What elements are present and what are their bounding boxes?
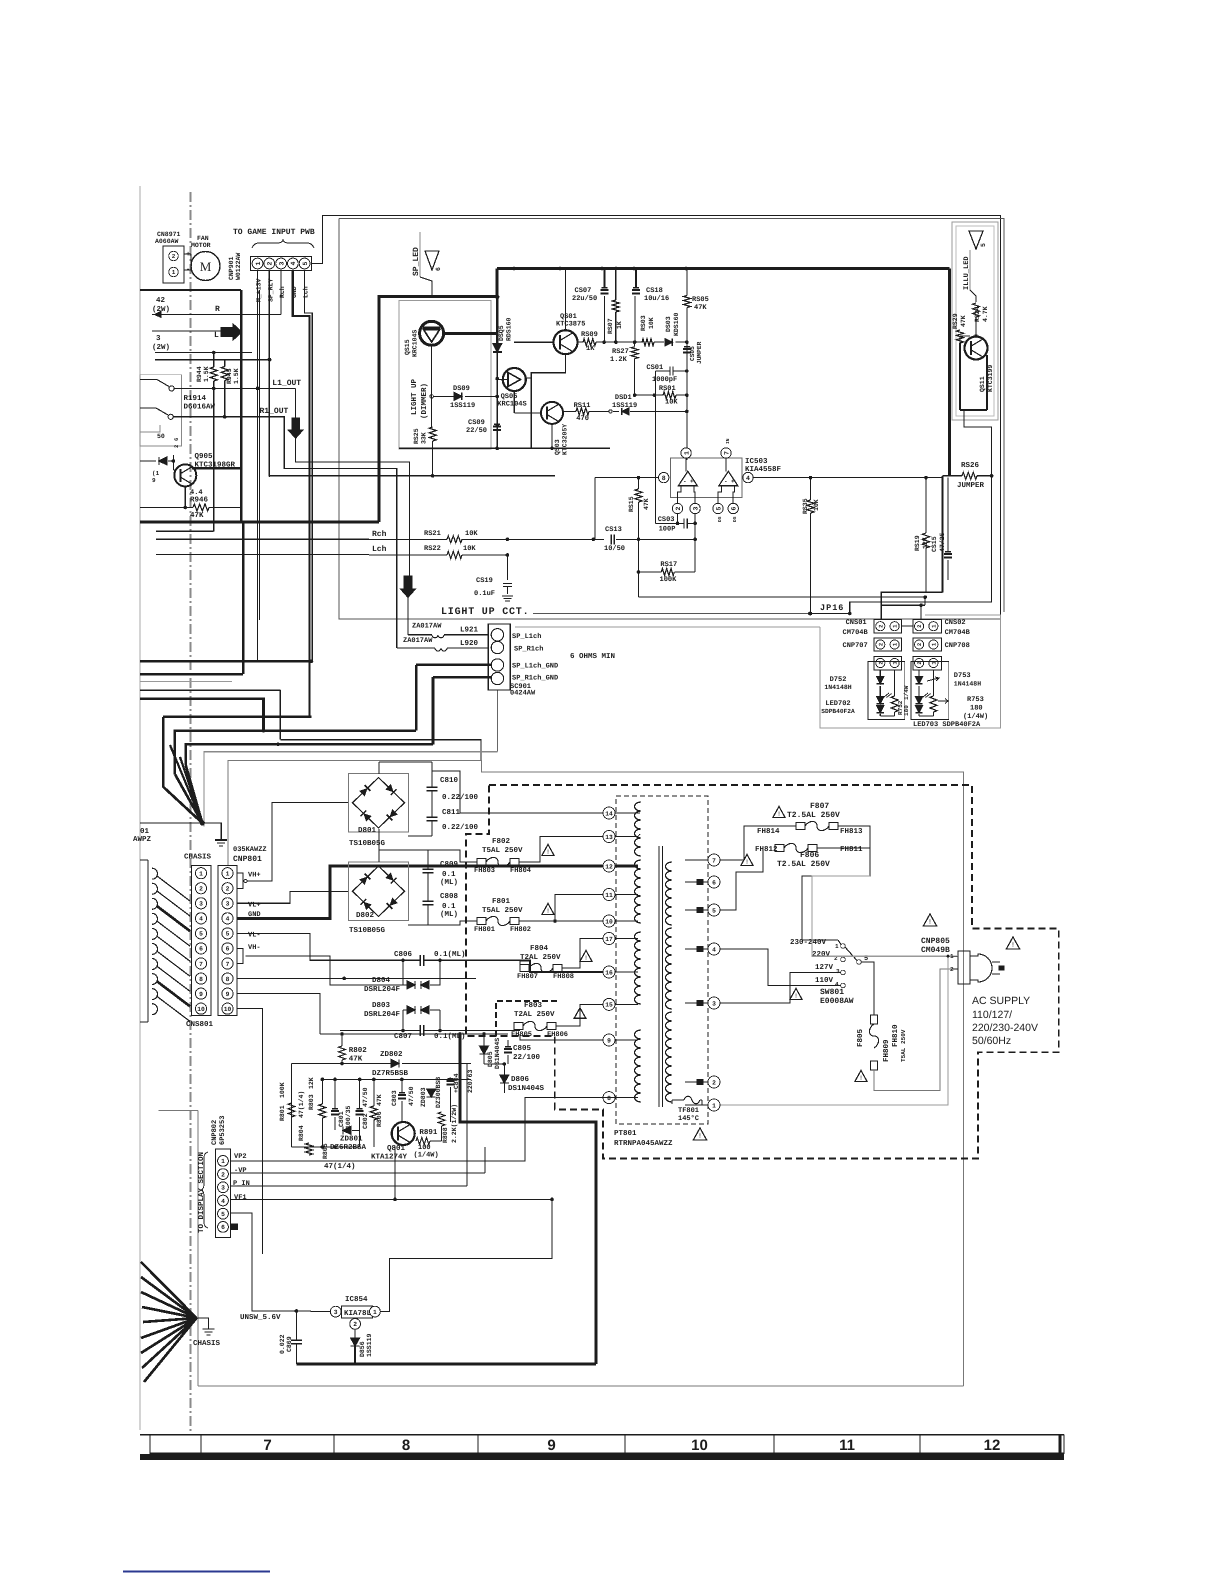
svg-text:R802: R802	[349, 1046, 368, 1055]
svg-text:11: 11	[605, 892, 613, 899]
wire cluster bottom rail	[292, 1146, 360, 1148]
svg-text:FH813: FH813	[840, 827, 863, 836]
svg-text:2: 2	[172, 253, 176, 260]
diode D753 1N4148H	[916, 677, 923, 684]
svg-text:!: !	[1012, 942, 1014, 949]
svg-text:035KAWZZ: 035KAWZZ	[233, 846, 267, 854]
svg-text:4: 4	[712, 946, 716, 953]
wire zd802 rail	[292, 1063, 392, 1065]
wire vert x241 thick	[240, 290, 243, 522]
svg-text:5: 5	[715, 506, 722, 510]
svg-text:FH806: FH806	[547, 1031, 568, 1039]
resistor R753 180 1/4W	[930, 696, 937, 712]
diode DS905	[159, 457, 167, 465]
tap mark	[697, 1080, 703, 1085]
svg-text:LED702: LED702	[825, 700, 850, 708]
svg-text:47K: 47K	[643, 498, 650, 510]
svg-text:1SS119: 1SS119	[612, 402, 637, 410]
svg-text:T2AL 250V: T2AL 250V	[514, 1010, 555, 1019]
wire Q905 collector right thick	[192, 467, 241, 469]
thick down arrow SP out	[400, 576, 416, 598]
svg-text:1: 1	[172, 269, 176, 276]
connector SC901 0424AW	[488, 624, 510, 690]
svg-text:FH810: FH810	[891, 1024, 900, 1047]
svg-text:KTA1274Y: KTA1274Y	[371, 1153, 408, 1162]
svg-text:D803: D803	[372, 1001, 391, 1010]
svg-text:!: !	[929, 919, 931, 926]
svg-text:TF801: TF801	[678, 1107, 699, 1115]
svg-text:+: +	[690, 478, 694, 485]
svg-text:47K: 47K	[960, 315, 967, 327]
svg-text:8: 8	[199, 976, 203, 983]
resistor R752 180	[891, 696, 898, 712]
svg-text:C806: C806	[394, 950, 413, 959]
svg-text:RS21: RS21	[424, 530, 441, 538]
arrow L1_OUT down	[295, 388, 297, 417]
svg-text:2: 2	[173, 445, 180, 448]
svg-text:3: 3	[334, 1309, 338, 1316]
svg-text:D752: D752	[830, 676, 847, 684]
svg-text:230-240V: 230-240V	[790, 938, 827, 947]
svg-text:7: 7	[199, 961, 203, 968]
wire GND pin4 thick to transformer	[237, 866, 603, 919]
svg-text:110/127/: 110/127/	[972, 1009, 1012, 1021]
svg-text:QS03: QS03	[554, 439, 561, 455]
wire pin7 to fuse network	[721, 826, 797, 860]
svg-text:5: 5	[980, 243, 987, 247]
wire CNP802 pin2	[231, 1172, 485, 1174]
svg-text:DZ300BSB: DZ300BSB	[435, 1077, 442, 1108]
pin6 stub	[231, 1224, 238, 1229]
svg-text:47K: 47K	[694, 304, 707, 312]
svg-text:-: -	[724, 478, 728, 485]
svg-text:11: 11	[839, 1437, 855, 1454]
svg-text:F806: F806	[800, 851, 819, 860]
diode D856 1SS119	[351, 1338, 360, 1346]
svg-text:1: 1	[255, 261, 262, 265]
wire feedback to RS35	[639, 596, 926, 598]
svg-text:180: 180	[903, 705, 910, 716]
svg-text:D805: D805	[487, 1051, 494, 1067]
svg-text:IC854: IC854	[345, 1295, 368, 1304]
svg-text:C810: C810	[440, 776, 459, 785]
svg-text:-VP: -VP	[234, 1167, 247, 1175]
wire inner bottom edge to JP16	[533, 613, 810, 615]
svg-text:RS17: RS17	[660, 561, 677, 569]
LED LED703	[916, 697, 923, 704]
transistor Q801 KTA1274Y	[392, 1122, 415, 1145]
svg-text:+: +	[186, 251, 190, 259]
svg-text:16: 16	[605, 969, 613, 976]
svg-text:SP_R1ch_GND: SP_R1ch_GND	[512, 674, 558, 683]
svg-text:RS03: RS03	[640, 315, 647, 331]
ground chasis upper	[200, 820, 205, 825]
svg-text:9: 9	[226, 991, 230, 998]
svg-text:R803: R803	[308, 1094, 315, 1110]
svg-text:FH814: FH814	[757, 827, 780, 836]
AC plug icon	[970, 954, 992, 982]
svg-text:SP_L1ch_GND: SP_L1ch_GND	[512, 662, 558, 671]
wire IC854	[296, 1310, 330, 1313]
svg-text:RS22: RS22	[424, 545, 441, 553]
svg-text:3: 3	[156, 334, 161, 343]
ground chasis bottom	[197, 1318, 209, 1329]
svg-text:C809: C809	[440, 860, 459, 869]
svg-text:2: 2	[950, 966, 954, 973]
diode D805 DS1N404S	[480, 1046, 489, 1054]
svg-text:SW801: SW801	[820, 988, 844, 997]
wire power right edge down to gray bottom	[963, 1159, 965, 1386]
wire CNP802 pin1 VP2 to PT pin8	[231, 1098, 616, 1161]
svg-text:VF1: VF1	[234, 1194, 247, 1202]
wire F801 net	[428, 921, 477, 925]
svg-text:2: 2	[199, 886, 203, 893]
svg-text:DS1N404S: DS1N404S	[508, 1084, 545, 1093]
svg-text:FH811: FH811	[840, 845, 863, 854]
wire gray left vertical	[197, 1110, 199, 1386]
LED SP_LED triangle	[425, 251, 439, 270]
wire VH+ to bridge D801	[247, 803, 348, 882]
wire y730 thick	[175, 731, 416, 774]
wire y751 gray	[204, 752, 498, 827]
svg-text:VL-: VL-	[248, 932, 261, 940]
svg-text:F805: F805	[856, 1028, 865, 1047]
svg-text:6: 6	[221, 1224, 225, 1231]
svg-text:10K: 10K	[813, 499, 820, 511]
svg-text:TS10B05G: TS10B05G	[349, 839, 386, 848]
svg-text:DSQ5: DSQ5	[498, 325, 505, 341]
svg-text:SP_RLY: SP_RLY	[267, 278, 274, 302]
svg-text:5: 5	[712, 907, 716, 914]
svg-text:6: 6	[226, 946, 230, 953]
big dashed primary box	[466, 785, 1059, 1159]
svg-text:L920: L920	[460, 639, 479, 648]
svg-text:100K: 100K	[279, 1082, 286, 1098]
svg-text:(ML): (ML)	[440, 910, 458, 919]
svg-text:47K: 47K	[190, 512, 204, 520]
svg-text:47/50: 47/50	[408, 1086, 415, 1106]
svg-text:VH+: VH+	[248, 872, 261, 880]
wire D802 nets	[378, 850, 380, 862]
LED ILLU_LED	[969, 231, 983, 249]
svg-text:SP_L1ch: SP_L1ch	[512, 632, 541, 641]
capacitor C802 47/50	[356, 1110, 364, 1112]
svg-text:DSRL204F: DSRL204F	[364, 1010, 401, 1019]
svg-text:R808: R808	[442, 1127, 449, 1143]
wire fan motor leads	[184, 253, 191, 255]
wire JP16 horizontal	[810, 613, 850, 615]
wire QS05 collector	[497, 379, 503, 381]
svg-text:F802: F802	[492, 837, 511, 846]
svg-text:0.1uF: 0.1uF	[474, 590, 495, 598]
box power section outline	[228, 761, 964, 866]
svg-text:Rch: Rch	[279, 286, 286, 298]
svg-text:180: 180	[970, 705, 983, 713]
svg-text:6: 6	[731, 506, 738, 510]
svg-text:10/50: 10/50	[604, 544, 625, 553]
pin 11 PT801	[603, 889, 615, 901]
wire winding ends left	[638, 812, 640, 814]
svg-text:2: 2	[916, 643, 923, 646]
pin 6 PT801 sec	[708, 876, 720, 888]
svg-text:TO DISPLAY SECTION: TO DISPLAY SECTION	[197, 1152, 206, 1233]
svg-text:5: 5	[199, 931, 203, 938]
svg-text:50: 50	[157, 433, 165, 440]
svg-text:R1914: R1914	[184, 394, 207, 403]
pin 8 PT801	[603, 1092, 615, 1104]
wire bus corner down x949	[948, 269, 951, 476]
svg-text:33K: 33K	[421, 432, 428, 444]
tap mark	[697, 947, 703, 952]
node bus x514	[512, 267, 516, 271]
svg-text:1: 1	[221, 1158, 225, 1165]
zener ZD803 DZ300BSB	[427, 1089, 436, 1097]
wire sc901 bottom down-left	[496, 690, 498, 752]
svg-text:3: 3	[692, 506, 699, 510]
ruler bottom bar	[140, 1454, 1064, 1460]
svg-text:FH807: FH807	[517, 973, 538, 981]
svg-text:0.022: 0.022	[279, 1334, 286, 1354]
svg-text:1: 1	[683, 451, 690, 455]
wire pin9 PT801	[520, 1034, 603, 1040]
svg-text:2: 2	[221, 1171, 225, 1178]
svg-text:0.22/100: 0.22/100	[442, 823, 479, 832]
svg-text:KTC3205Y: KTC3205Y	[562, 424, 569, 455]
svg-text:CM704B: CM704B	[843, 629, 869, 637]
svg-text:470: 470	[576, 415, 589, 423]
svg-text:IC503: IC503	[745, 457, 768, 466]
svg-text:QS15: QS15	[404, 339, 411, 355]
svg-text:100/35: 100/35	[345, 1105, 352, 1129]
svg-text:ZD803: ZD803	[420, 1087, 427, 1107]
svg-text:-: -	[683, 478, 687, 485]
wire pin8 rail	[237, 977, 476, 979]
node bus x686	[684, 267, 688, 271]
transformer primary winding right column	[666, 862, 672, 925]
svg-text:DSRL204F: DSRL204F	[364, 985, 401, 994]
svg-text:10: 10	[605, 918, 613, 925]
wire common to F805	[861, 962, 874, 1015]
wire vert x213	[213, 388, 215, 531]
svg-text:FH809: FH809	[882, 1039, 891, 1062]
svg-text:1: 1	[373, 1309, 377, 1316]
wire y717 step	[163, 716, 311, 719]
svg-text:FH801: FH801	[474, 926, 495, 934]
svg-text:1.5K: 1.5K	[233, 368, 240, 384]
svg-text:CN8971: CN8971	[157, 231, 181, 238]
svg-text:4: 4	[746, 475, 750, 482]
svg-text:12: 12	[605, 863, 613, 870]
wire vert x243 thick	[242, 522, 245, 674]
dash-dot chassis boundary line	[190, 192, 192, 1434]
wire VL- pin5	[237, 934, 340, 961]
wires D805 cluster	[483, 1034, 485, 1046]
wire F802 net	[428, 850, 477, 862]
svg-text:ZA017AW: ZA017AW	[403, 637, 433, 645]
svg-text:R753: R753	[967, 696, 984, 704]
svg-text:D804: D804	[372, 976, 391, 985]
wire x497 down	[496, 352, 498, 448]
svg-text:!: !	[585, 955, 587, 962]
wire into chasis from left	[140, 822, 202, 824]
svg-text:VH-: VH-	[248, 944, 261, 952]
wire pin10	[555, 920, 603, 922]
hatch diagonals CNS801 left	[157, 876, 190, 1021]
node bus x634	[632, 267, 636, 271]
svg-text:47K: 47K	[376, 1094, 383, 1106]
svg-text:DSD1: DSD1	[615, 394, 632, 402]
svg-text:CNS801: CNS801	[186, 1020, 214, 1029]
svg-text:CNP901: CNP901	[228, 256, 235, 280]
wire plug pin1 to fuse net	[812, 876, 957, 956]
svg-text:(ML): (ML)	[440, 878, 458, 887]
wire game pin5 Lch down	[305, 271, 313, 662]
svg-text:2: 2	[675, 506, 682, 510]
wire y717 left corner diag	[163, 717, 202, 823]
svg-text:10: 10	[197, 1006, 205, 1013]
wire gray bottom line	[198, 1385, 964, 1387]
svg-text:R801: R801	[279, 1105, 286, 1121]
svg-text:F801: F801	[492, 897, 511, 906]
wire pin1 PT801 to plug line	[721, 956, 949, 1105]
svg-text:CNS02: CNS02	[945, 619, 966, 627]
pin 2 PT801 sec	[708, 1076, 720, 1088]
svg-text:CM704B: CM704B	[945, 629, 971, 637]
wire stub y290	[140, 289, 241, 291]
svg-text:7: 7	[712, 857, 716, 864]
svg-text:1SS119: 1SS119	[366, 1333, 373, 1357]
svg-text:VL+: VL+	[248, 902, 261, 910]
svg-text:5: 5	[221, 1211, 225, 1218]
pin 12 PT801	[603, 860, 615, 872]
svg-text:JUMPER: JUMPER	[696, 341, 703, 364]
svg-text:3: 3	[199, 901, 203, 908]
svg-text:15: 15	[605, 1002, 613, 1009]
wire cluster top rail y1079	[322, 1078, 471, 1080]
svg-text:10u/16: 10u/16	[644, 294, 669, 303]
svg-text:L921: L921	[460, 626, 479, 635]
wire sc901 to LED block thin	[515, 626, 820, 628]
svg-text:9: 9	[152, 477, 156, 484]
pin 15 PT801	[603, 998, 615, 1010]
left connector semicircles	[152, 868, 158, 1014]
svg-text:(1/4W): (1/4W)	[963, 712, 988, 721]
wire CNS inputs	[881, 604, 925, 606]
svg-text:2: 2	[916, 625, 923, 628]
wire D801 bottom to D802 top	[378, 829, 380, 850]
svg-text:47/50: 47/50	[362, 1087, 369, 1107]
wire at 352	[155, 352, 252, 354]
svg-text:1K: 1K	[586, 345, 595, 353]
svg-text:CS09: CS09	[468, 419, 485, 427]
svg-text:8: 8	[402, 1437, 410, 1454]
transistor QS05 KRC104S	[503, 368, 526, 391]
wire opamp out right	[753, 477, 942, 479]
wire thick dimmer box top	[379, 269, 497, 523]
svg-text:6: 6	[199, 946, 203, 953]
svg-text:12: 12	[984, 1437, 1001, 1454]
svg-text:!: !	[746, 859, 748, 866]
svg-text:D801: D801	[358, 826, 377, 835]
svg-text:0424AW: 0424AW	[510, 690, 536, 698]
fuse F806 T2.5AL 250V	[775, 845, 784, 852]
svg-text:AC SUPPLY: AC SUPPLY	[972, 995, 1030, 1007]
wire C810 to pin14	[432, 771, 603, 813]
svg-text:T2.5AL 250V: T2.5AL 250V	[777, 860, 830, 869]
svg-text:1.5K: 1.5K	[203, 366, 210, 382]
wire QS15 emitter to corner	[444, 332, 498, 335]
node bus x560	[558, 267, 562, 271]
svg-text:FH804: FH804	[510, 867, 531, 875]
svg-text:CHASIS: CHASIS	[184, 853, 212, 862]
svg-text:C803: C803	[391, 1090, 398, 1106]
wire light-up box left/bottom	[339, 219, 1001, 620]
wire inner border of light-up section	[339, 219, 1004, 613]
svg-text:10K: 10K	[648, 317, 655, 329]
wire F805 to plug pin2	[874, 969, 957, 1091]
pin 16 PT801	[603, 966, 615, 978]
wire VH+ bracket pins1-2	[237, 873, 243, 888]
wire bundle y661 thick	[140, 660, 312, 663]
resistor R802 47K	[339, 1046, 346, 1060]
svg-text:D856: D856	[359, 1341, 366, 1357]
svg-text:RS27: RS27	[612, 348, 629, 356]
wire Lch long	[156, 554, 369, 556]
svg-text:7: 7	[263, 1437, 271, 1454]
fuse F805 vertical	[871, 1015, 878, 1024]
svg-text:22/100: 22/100	[513, 1053, 541, 1062]
svg-text:47(1/4): 47(1/4)	[298, 1091, 305, 1118]
connector LED703 header	[913, 657, 942, 670]
pin 7 PT801 sec	[708, 854, 720, 866]
svg-text:9: 9	[607, 1037, 611, 1044]
svg-text:CNP708: CNP708	[945, 642, 970, 650]
svg-text:RS26: RS26	[961, 461, 980, 470]
svg-text:F807: F807	[810, 802, 829, 811]
svg-text:F804: F804	[530, 944, 549, 953]
svg-text:4: 4	[835, 981, 839, 988]
wire top rail y1034	[320, 1033, 508, 1035]
svg-text:!: !	[795, 993, 797, 1000]
wire left edge connector box	[147, 860, 149, 1022]
bridge rectifier D801 TS10B05G	[349, 774, 409, 833]
connector LED702 header	[874, 657, 902, 670]
wire thick bottom return	[296, 1362, 596, 1365]
svg-text:3: 3	[836, 968, 840, 975]
svg-text:8: 8	[662, 475, 666, 482]
svg-text:4: 4	[290, 261, 297, 265]
svg-text:RS29: RS29	[952, 313, 959, 329]
svg-text:3: 3	[278, 261, 285, 265]
connector CNP805 CM049B	[923, 914, 936, 926]
capacitor C801 100/35	[331, 1110, 339, 1112]
op-amp IC503 KIA4558F	[670, 458, 742, 498]
svg-text:FH812: FH812	[755, 845, 778, 854]
wire bridge D801 nets	[378, 762, 380, 774]
wire bus y531	[156, 530, 214, 532]
wire QS01 collector up	[565, 269, 567, 331]
wire VL+ pin3 to bridge D802	[237, 892, 348, 904]
svg-text:RS25: RS25	[413, 428, 420, 444]
svg-text:C801: C801	[338, 1111, 345, 1127]
svg-text:9: 9	[547, 1437, 555, 1454]
svg-text:47K: 47K	[349, 1056, 363, 1064]
wire y739 to bridge area	[280, 740, 481, 761]
svg-text:C802: C802	[362, 1113, 369, 1129]
svg-text:T5AL 250V: T5AL 250V	[482, 846, 523, 855]
svg-text:9: 9	[199, 991, 203, 998]
svg-text:T5AL 250V: T5AL 250V	[482, 906, 523, 915]
